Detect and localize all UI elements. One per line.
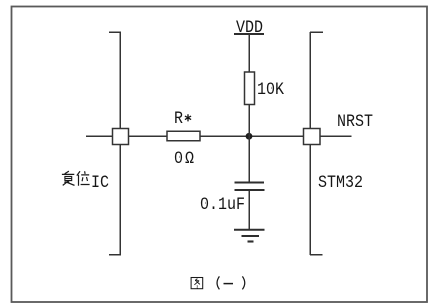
resistor R1 10K body — [245, 72, 255, 105]
asterisk of label R* — [185, 114, 191, 121]
wire: STM32 pin right stub — [320, 135, 352, 137]
wire: left stub into J1 pin — [86, 135, 112, 137]
glyph 位 of label 复位IC — [77, 171, 90, 185]
ground symbol — [234, 229, 265, 231]
fullwidth open paren of 图（一） — [217, 276, 219, 289]
label NRST — [337, 113, 373, 131]
capacitor C1 0.1uF plates — [235, 181, 265, 183]
resistor R* (0 ohm) body — [167, 131, 200, 141]
label 复位IC latin part — [91, 174, 109, 192]
glyph 一 of label 图（一） — [224, 283, 234, 285]
connector bracket J2 (STM32 side) — [310, 32, 323, 255]
label VDD — [236, 19, 263, 37]
label 0 ohm — [174, 150, 183, 168]
wire: R1 to node A to capacitor C1 — [248, 105, 250, 183]
label R* — [174, 110, 183, 128]
pin box of STM32 NRST — [304, 129, 321, 145]
power symbol VDD bar — [234, 33, 264, 35]
label 0.1uF — [200, 196, 245, 214]
patch: plain zero styling — [177, 154, 179, 159]
wire: J1 pin to resistor R* — [129, 135, 167, 137]
glyph 复 of label 复位IC — [62, 171, 75, 185]
wire: R* to node A to STM32 pin — [200, 135, 304, 137]
node A junction dot — [246, 133, 253, 140]
wire: C1 to ground — [248, 191, 250, 229]
pin box of reset IC — [113, 129, 129, 145]
label 10K — [257, 81, 284, 99]
wire: VDD bar to resistor R1 — [248, 34, 250, 72]
glyph 图 of label 图（一） — [191, 278, 203, 289]
label STM32 — [318, 174, 363, 192]
connector bracket J1 (reset IC side) — [109, 32, 121, 255]
fullwidth close paren of 图（一） — [242, 276, 244, 289]
